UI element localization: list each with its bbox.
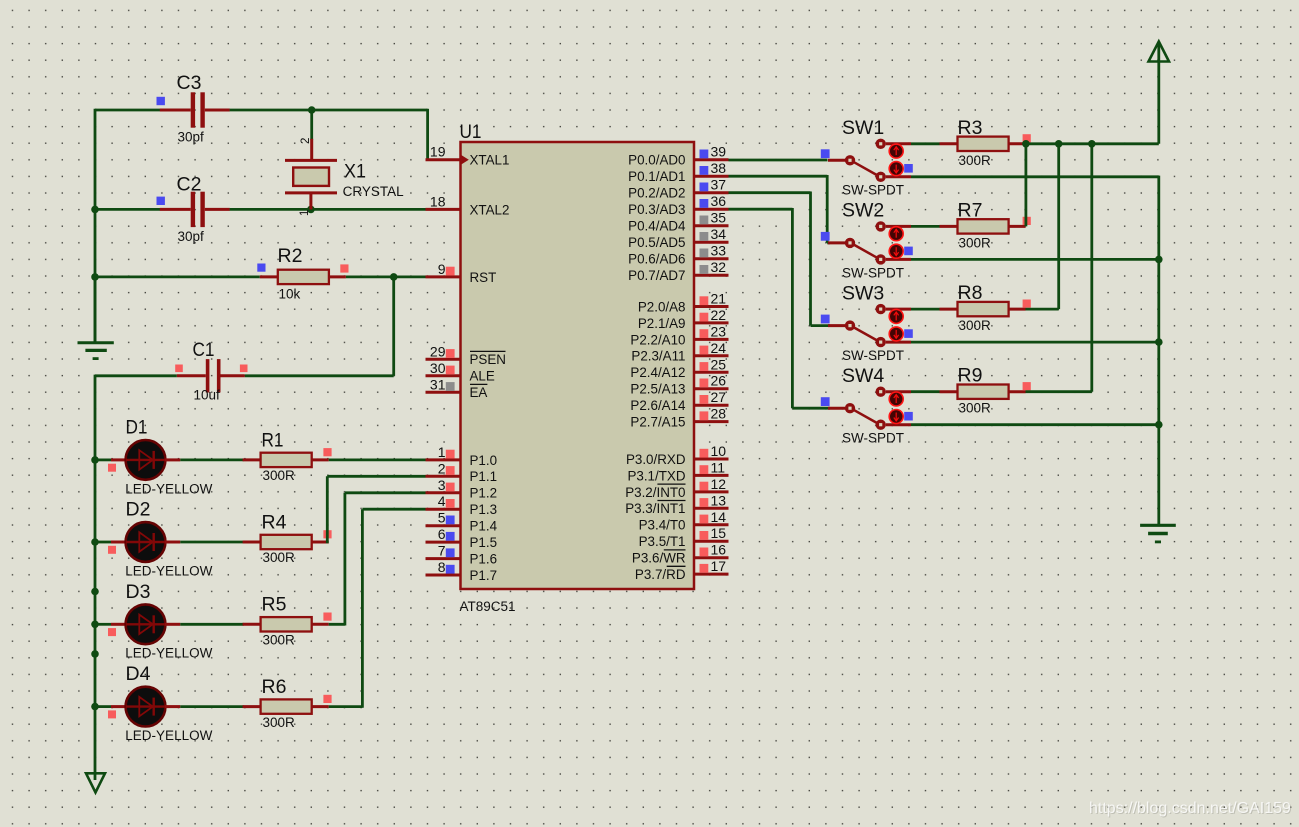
svg-text:P3.0/RXD: P3.0/RXD xyxy=(626,452,686,467)
svg-text:10k: 10k xyxy=(279,286,301,301)
label C2 xyxy=(177,174,202,196)
pin 32 P0.7/AD7 of U1 xyxy=(628,259,728,283)
svg-text:32: 32 xyxy=(711,259,727,275)
node junction C2/X1 bottom xyxy=(307,206,315,214)
marker blue square near C3 xyxy=(157,97,165,105)
node junction rail/D1 xyxy=(91,456,99,464)
toggle down button of SW1 xyxy=(889,162,903,176)
wire pin37 to SW3 common xyxy=(729,192,811,326)
svg-text:29: 29 xyxy=(430,343,446,359)
svg-text:36: 36 xyxy=(711,193,727,209)
wire D2 to R4 xyxy=(180,541,243,544)
svg-text:2: 2 xyxy=(300,138,312,144)
pin 37 P0.2/AD2 of U1 xyxy=(628,177,728,201)
svg-text:25: 25 xyxy=(711,356,727,372)
svg-text:P1.2: P1.2 xyxy=(470,486,498,501)
svg-text:XTAL2: XTAL2 xyxy=(470,202,510,217)
label C3 xyxy=(177,72,202,94)
svg-text:300R: 300R xyxy=(959,401,992,416)
svg-text:1: 1 xyxy=(438,444,446,460)
svg-text:SW-SPDT: SW-SPDT xyxy=(842,431,904,446)
switch SW1 (SW-SPDT) xyxy=(828,139,911,182)
svg-text:P2.3/A11: P2.3/A11 xyxy=(631,349,685,364)
marker red square right of C1 xyxy=(240,365,248,373)
pin number 2 of X1 xyxy=(300,138,312,144)
node junction R2/C1 branch xyxy=(390,273,398,281)
svg-text:P3.6/WR: P3.6/WR xyxy=(632,551,686,566)
svg-text:R3: R3 xyxy=(958,117,983,139)
svg-text:P1.1: P1.1 xyxy=(470,469,498,484)
marker red square near R7 xyxy=(1023,217,1031,225)
pin 12 P3.2/INT0 of U1 xyxy=(625,476,728,500)
marker blue square near R2 xyxy=(257,264,265,272)
svg-text:33: 33 xyxy=(711,243,727,259)
switch SW3 (SW-SPDT) xyxy=(828,304,911,347)
label SW2 xyxy=(842,200,884,222)
wire rail to D2 xyxy=(95,541,111,544)
svg-text:P1.0: P1.0 xyxy=(470,453,498,468)
svg-text:SW-SPDT: SW-SPDT xyxy=(842,348,904,363)
node junction rail extra 1 xyxy=(91,588,99,596)
svg-text:38: 38 xyxy=(711,160,727,176)
wire C2 to crystal-bottom junction and XTAL2 pin xyxy=(230,208,426,211)
svg-text:R1: R1 xyxy=(262,429,284,451)
svg-text:D2: D2 xyxy=(126,499,151,521)
svg-text:30: 30 xyxy=(430,360,446,376)
svg-text:https://blog.csdn.net/GAI159: https://blog.csdn.net/GAI159 xyxy=(1089,800,1291,817)
node junction SW4 lower/ground rail xyxy=(1155,421,1163,429)
svg-text:P0.7/AD7: P0.7/AD7 xyxy=(628,268,685,283)
wire SW4 lower throw to ground rail xyxy=(911,423,1159,426)
wire SW4 feed horizontal xyxy=(792,407,830,410)
wire SW3 lower throw to ground rail xyxy=(911,341,1159,344)
wire D3 to R5 xyxy=(180,623,243,626)
svg-text:P2.5/A13: P2.5/A13 xyxy=(630,382,685,397)
svg-text:P2.4/A12: P2.4/A12 xyxy=(630,365,685,380)
marker red square left of C1 xyxy=(175,365,183,373)
wire vertical to R7 output xyxy=(1025,144,1028,227)
ground bottom right xyxy=(1140,525,1176,542)
svg-text:SW2: SW2 xyxy=(842,200,884,222)
svg-text:300R: 300R xyxy=(263,550,296,565)
toggle up button of SW3 xyxy=(889,309,903,323)
wire VCC-left rail top corner to C3 xyxy=(95,109,160,112)
svg-text:P0.3/AD3: P0.3/AD3 xyxy=(628,202,685,217)
pin 18 XTAL2 of U1 xyxy=(426,193,510,217)
wire pin39 to SW1 common xyxy=(729,159,828,162)
wire rail to C2 xyxy=(95,208,160,211)
value 300R of R8 xyxy=(959,318,992,333)
value SW-SPDT of SW1 xyxy=(842,183,904,198)
svg-text:18: 18 xyxy=(430,193,446,209)
value 300R of R3 xyxy=(959,153,992,168)
wire R4 to P1.1 xyxy=(327,476,425,543)
wire SW2 upper throw to R7 xyxy=(911,225,940,228)
wire D1 to R1 xyxy=(180,458,243,461)
svg-text:26: 26 xyxy=(711,373,727,389)
svg-text:P2.0/A8: P2.0/A8 xyxy=(638,299,686,314)
LED D3 xyxy=(111,604,180,644)
pin 38 P0.1/AD1 of U1 xyxy=(628,160,728,184)
node junction rail/D2 xyxy=(91,538,99,546)
marker blue square near SW2 lower throw xyxy=(904,247,913,256)
pin 28 P2.7/A15 of U1 xyxy=(630,406,728,430)
pin 6 P1.5 of U1 xyxy=(426,526,498,550)
node junction rail extra 2 xyxy=(91,650,99,658)
pin 1 P1.0 of U1 xyxy=(426,444,498,468)
marker red square right of R2 xyxy=(340,264,348,272)
svg-text:U1: U1 xyxy=(460,121,482,143)
value 10k of R2 xyxy=(279,286,301,301)
wire pin36 to SW4 common xyxy=(729,208,793,408)
value 300R of R5 xyxy=(263,633,296,648)
toggle up button of SW1 xyxy=(889,144,903,158)
pin 9 RST of U1 xyxy=(426,261,497,285)
power VCC arrow top right xyxy=(1149,42,1170,144)
pin 16 P3.6/WR of U1 xyxy=(632,542,729,566)
label R1 xyxy=(262,429,284,451)
svg-text:300R: 300R xyxy=(263,715,296,730)
wire SW3 upper throw to R8 xyxy=(911,308,940,311)
label U1 xyxy=(460,121,482,143)
pin 31 EA of U1 xyxy=(426,376,488,400)
label SW3 xyxy=(842,282,884,304)
svg-text:P3.4/T0: P3.4/T0 xyxy=(639,518,686,533)
svg-text:4: 4 xyxy=(438,493,446,509)
svg-text:R2: R2 xyxy=(278,245,303,267)
pin 22 P2.1/A9 of U1 xyxy=(638,307,729,331)
svg-text:X1: X1 xyxy=(344,161,366,183)
svg-text:P0.1/AD1: P0.1/AD1 xyxy=(628,169,685,184)
wire vertical to R9 output xyxy=(1026,144,1092,392)
svg-text:P2.6/A14: P2.6/A14 xyxy=(630,398,686,413)
wire ground rail right vertical xyxy=(1157,176,1160,525)
svg-text:10uf: 10uf xyxy=(194,388,221,403)
resistor R4 xyxy=(243,535,329,549)
svg-text:P3.3/INT1: P3.3/INT1 xyxy=(625,501,685,516)
wire left bottom rail vertical xyxy=(94,375,97,780)
marker blue square near SW3 common xyxy=(821,315,830,324)
wire rail to R2 xyxy=(95,275,260,278)
wire R6 to P1.3 xyxy=(329,509,426,708)
svg-text:11: 11 xyxy=(711,459,726,475)
svg-text:P1.4: P1.4 xyxy=(470,519,498,534)
capacitor C3 xyxy=(160,92,230,127)
value 300R of R7 xyxy=(959,235,992,250)
svg-text:P0.6/AD6: P0.6/AD6 xyxy=(628,252,685,267)
value SW-SPDT of SW3 xyxy=(842,348,904,363)
svg-text:31: 31 xyxy=(430,376,446,392)
label R2 xyxy=(278,245,303,267)
toggle up button of SW2 xyxy=(889,227,903,241)
pin 11 P3.1/TXD of U1 xyxy=(627,459,728,483)
node junction R3/R9 column xyxy=(1088,140,1096,148)
pin 25 P2.4/A12 of U1 xyxy=(630,356,728,380)
svg-text:D4: D4 xyxy=(126,663,151,685)
svg-text:D1: D1 xyxy=(126,417,148,439)
switch SW4 (SW-SPDT) xyxy=(828,387,911,430)
svg-text:12: 12 xyxy=(711,476,727,492)
marker blue square near SW2 common xyxy=(821,232,830,241)
marker red square near R4 xyxy=(323,530,331,538)
resistor R3 xyxy=(940,137,1026,151)
value LED-YELLOW of D3 xyxy=(125,646,212,661)
svg-text:19: 19 xyxy=(430,144,446,160)
svg-text:EA: EA xyxy=(470,385,488,400)
svg-text:PSEN: PSEN xyxy=(470,352,506,367)
wire junction down to C1 row xyxy=(245,277,394,376)
pin 13 P3.3/INT1 of U1 xyxy=(625,492,728,516)
wire left rail vertical (C3 row to ground) xyxy=(94,109,97,342)
svg-text:5: 5 xyxy=(438,510,446,526)
svg-text:R4: R4 xyxy=(262,511,287,533)
wire pin38 to SW2 common xyxy=(729,175,828,243)
label R4 xyxy=(262,511,287,533)
label D4 xyxy=(126,663,151,685)
marker red square near D4 xyxy=(108,710,116,718)
label SW4 xyxy=(842,365,884,387)
label R3 xyxy=(958,117,983,139)
wire junction to corner above XTAL1 xyxy=(312,109,428,160)
value 30pf of C3 xyxy=(178,130,205,145)
pin 4 P1.3 of U1 xyxy=(426,493,498,517)
node junction rail/D4 xyxy=(91,703,99,711)
power down-arrow bottom left xyxy=(86,773,105,792)
label R6 xyxy=(262,676,287,698)
wire D4 to R6 xyxy=(180,705,243,708)
svg-text:P3.5/T1: P3.5/T1 xyxy=(639,534,686,549)
svg-text:P0.4/AD4: P0.4/AD4 xyxy=(628,219,686,234)
label D2 xyxy=(126,499,151,521)
pin 10 P3.0/RXD of U1 xyxy=(626,443,729,467)
resistor R2 xyxy=(260,270,346,284)
wire vertical to R8 output xyxy=(1026,144,1059,309)
svg-text:C2: C2 xyxy=(177,174,202,196)
svg-text:22: 22 xyxy=(711,307,727,323)
svg-text:28: 28 xyxy=(711,406,727,422)
svg-text:P2.7/A15: P2.7/A15 xyxy=(630,415,685,430)
marker blue square near SW4 common xyxy=(821,397,830,406)
svg-text:P0.5/AD5: P0.5/AD5 xyxy=(628,235,685,250)
resistor R1 xyxy=(243,453,329,467)
marker blue square near SW1 common xyxy=(821,149,830,158)
toggle down button of SW3 xyxy=(889,327,903,341)
svg-text:CRYSTAL: CRYSTAL xyxy=(343,184,405,199)
svg-text:R8: R8 xyxy=(958,282,983,304)
marker red square near R3 xyxy=(1023,134,1031,142)
pin 3 P1.2 of U1 xyxy=(426,477,498,501)
pin 27 P2.6/A14 of U1 xyxy=(630,389,728,413)
value SW-SPDT of SW2 xyxy=(842,265,904,280)
label D1 xyxy=(126,417,148,439)
svg-text:LED-YELLOW: LED-YELLOW xyxy=(125,481,212,496)
label R8 xyxy=(958,282,983,304)
svg-text:D3: D3 xyxy=(126,581,151,603)
value LED-YELLOW of D4 xyxy=(125,728,212,743)
svg-text:21: 21 xyxy=(711,291,727,307)
wire C3 to crystal-top junction xyxy=(230,109,312,112)
svg-text:39: 39 xyxy=(711,144,727,160)
marker red square near D2 xyxy=(108,546,116,554)
label X1 xyxy=(344,161,366,183)
svg-text:SW3: SW3 xyxy=(842,282,884,304)
resistor R9 xyxy=(940,385,1026,399)
svg-text:AT89C51: AT89C51 xyxy=(460,599,516,614)
svg-text:30pf: 30pf xyxy=(178,229,205,244)
value SW-SPDT of SW4 xyxy=(842,431,904,446)
svg-text:SW1: SW1 xyxy=(842,117,884,139)
svg-text:LED-YELLOW: LED-YELLOW xyxy=(125,728,212,743)
node junction C3/X1 top xyxy=(308,106,316,114)
svg-text:R9: R9 xyxy=(958,365,983,387)
value LED-YELLOW of D2 xyxy=(125,563,212,578)
wire rail to D3 xyxy=(95,623,111,626)
LED D1 xyxy=(111,440,180,480)
value 30pf of C2 xyxy=(178,229,205,244)
pin 19 XTAL1 of U1 xyxy=(426,144,510,168)
svg-text:P1.5: P1.5 xyxy=(470,535,498,550)
svg-text:300R: 300R xyxy=(959,153,992,168)
svg-text:14: 14 xyxy=(711,509,727,525)
pin 23 P2.2/A10 of U1 xyxy=(630,323,728,347)
wire SW1 lower throw to ground rail xyxy=(911,175,1159,178)
wire rail to D4 xyxy=(95,705,111,708)
node junction SW3 lower/ground rail xyxy=(1155,338,1163,346)
svg-text:C3: C3 xyxy=(177,72,202,94)
svg-text:P2.1/A9: P2.1/A9 xyxy=(638,316,686,331)
crystal X1 xyxy=(285,110,337,209)
capacitor C1 xyxy=(177,359,245,392)
toggle down button of SW2 xyxy=(889,244,903,258)
svg-text:P0.0/AD0: P0.0/AD0 xyxy=(628,153,685,168)
svg-text:LED-YELLOW: LED-YELLOW xyxy=(125,646,212,661)
svg-text:300R: 300R xyxy=(959,235,992,250)
wire SW2 lower throw to ground rail xyxy=(911,258,1159,261)
svg-text:300R: 300R xyxy=(959,318,992,333)
toggle up button of SW4 xyxy=(889,392,903,406)
label R5 xyxy=(262,594,287,616)
node junction R3/R7 column xyxy=(1022,140,1030,148)
pin 30 ALE of U1 xyxy=(426,360,495,384)
pin 5 P1.4 of U1 xyxy=(426,510,498,534)
capacitor C2 xyxy=(160,192,230,227)
node junction rail/R2 xyxy=(91,273,99,281)
pin 2 P1.1 of U1 xyxy=(426,460,498,484)
marker red square near R1 xyxy=(323,448,331,456)
resistor R5 xyxy=(243,617,329,631)
marker red square near R9 xyxy=(1023,382,1031,390)
svg-text:300R: 300R xyxy=(263,468,296,483)
svg-text:17: 17 xyxy=(711,558,727,574)
pin 33 P0.6/AD6 of U1 xyxy=(628,243,728,267)
svg-text:10: 10 xyxy=(711,443,727,459)
wire SW4 upper throw to R9 xyxy=(911,390,940,393)
marker red square near D3 xyxy=(108,628,116,636)
pin 8 P1.7 of U1 xyxy=(426,559,498,583)
value 300R of R1 xyxy=(263,468,296,483)
marker red square near D1 xyxy=(108,464,116,472)
svg-text:2: 2 xyxy=(438,460,446,476)
svg-text:37: 37 xyxy=(711,177,727,193)
value LED-YELLOW of D1 xyxy=(125,481,212,496)
label C1 xyxy=(193,339,215,361)
value 300R of R4 xyxy=(263,550,296,565)
value CRYSTAL of X1 xyxy=(343,184,405,199)
pin 7 P1.6 of U1 xyxy=(426,543,498,567)
svg-text:P1.6: P1.6 xyxy=(470,552,498,567)
pin 15 P3.5/T1 of U1 xyxy=(639,525,729,549)
pin 36 P0.3/AD3 of U1 xyxy=(628,193,728,217)
wire SW1 upper throw to R3 xyxy=(911,142,940,145)
svg-text:SW-SPDT: SW-SPDT xyxy=(842,265,904,280)
svg-text:SW-SPDT: SW-SPDT xyxy=(842,183,904,198)
pin number 1 of X1 xyxy=(299,210,311,216)
pin 35 P0.4/AD4 of U1 xyxy=(628,210,728,234)
marker red square near R5 xyxy=(323,613,331,621)
marker red square near R8 xyxy=(1023,300,1031,308)
svg-text:6: 6 xyxy=(438,526,446,542)
svg-text:R7: R7 xyxy=(958,199,983,221)
wire R2 to RST pin with branch junction xyxy=(346,275,426,278)
svg-text:P3.7/RD: P3.7/RD xyxy=(635,567,686,582)
value AT89C51 of U1 xyxy=(460,599,516,614)
value 300R of R9 xyxy=(959,401,992,416)
marker blue square near C2 xyxy=(157,197,165,205)
svg-text:RST: RST xyxy=(470,270,497,285)
resistor R8 xyxy=(940,302,1026,316)
svg-text:300R: 300R xyxy=(263,633,296,648)
svg-text:ALE: ALE xyxy=(470,369,495,384)
svg-text:3: 3 xyxy=(438,477,446,493)
svg-text:16: 16 xyxy=(711,542,727,558)
svg-text:9: 9 xyxy=(438,261,446,277)
wire R1 to P1.0 xyxy=(329,458,426,461)
svg-text:P3.2/INT0: P3.2/INT0 xyxy=(625,485,685,500)
svg-text:LED-YELLOW: LED-YELLOW xyxy=(125,563,212,578)
pin 39 P0.0/AD0 of U1 xyxy=(628,144,728,168)
watermark text xyxy=(1089,800,1292,818)
svg-text:23: 23 xyxy=(711,323,727,339)
pin 24 P2.3/A11 of U1 xyxy=(631,340,728,364)
node junction R3/R8 column xyxy=(1055,140,1063,148)
wire rail to D1 xyxy=(95,458,111,461)
ground xyxy=(78,277,114,359)
pin 26 P2.5/A13 of U1 xyxy=(630,373,728,397)
pin 17 P3.7/RD of U1 xyxy=(635,558,729,582)
svg-text:SW4: SW4 xyxy=(842,365,884,387)
pin 29 PSEN of U1 xyxy=(426,343,506,367)
pin 34 P0.5/AD5 of U1 xyxy=(628,226,728,250)
wire SW2 feed horizontal xyxy=(827,241,830,244)
svg-text:35: 35 xyxy=(711,210,727,226)
label SW1 xyxy=(842,117,884,139)
svg-text:30pf: 30pf xyxy=(178,130,205,145)
node junction rail/C2 xyxy=(91,206,99,214)
svg-text:P0.2/AD2: P0.2/AD2 xyxy=(628,186,685,201)
label R7 xyxy=(958,199,983,221)
LED D2 xyxy=(111,522,180,562)
svg-text:R5: R5 xyxy=(262,594,287,616)
svg-text:P2.2/A10: P2.2/A10 xyxy=(630,332,685,347)
label D3 xyxy=(126,581,151,603)
resistor R6 xyxy=(243,699,329,713)
svg-text:R6: R6 xyxy=(262,676,287,698)
svg-text:P1.3: P1.3 xyxy=(470,502,498,517)
marker blue square near SW3 lower throw xyxy=(904,329,913,338)
svg-text:XTAL1: XTAL1 xyxy=(470,153,510,168)
marker blue square near SW4 lower throw xyxy=(904,412,913,421)
value 10uf of C1 xyxy=(194,388,221,403)
